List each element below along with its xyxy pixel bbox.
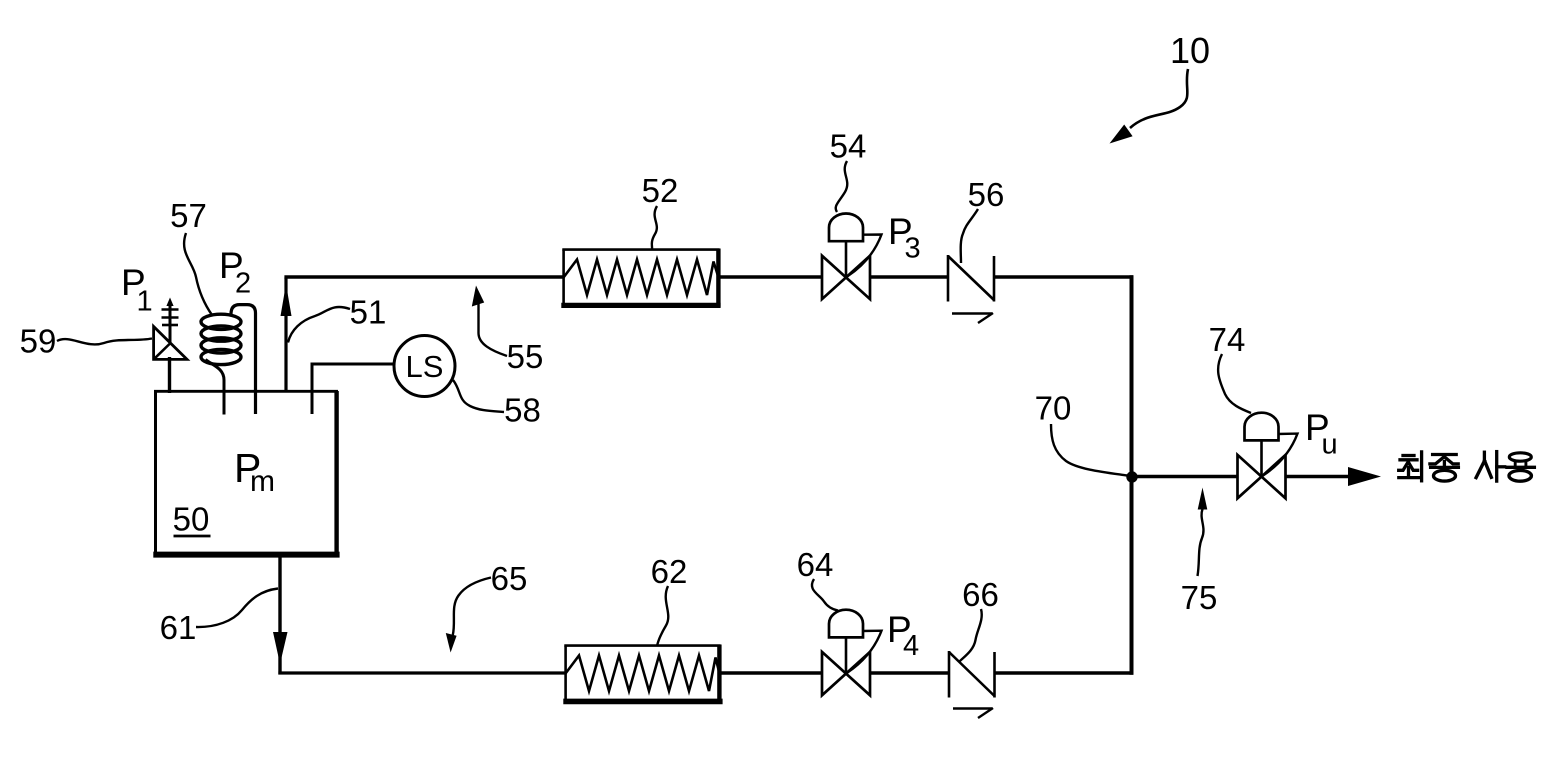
label 52: [642, 172, 679, 209]
svg-text:50: 50: [173, 501, 210, 538]
leader for 61: [196, 589, 278, 628]
label 58: [504, 392, 541, 429]
check valve 56: [948, 255, 994, 323]
wire coil 57 bottom inlet to tank: [206, 360, 225, 415]
level sensor LS pipe: [312, 364, 394, 414]
relief valve 59 spring: [169, 303, 172, 344]
check valve 66: [949, 651, 995, 718]
heater 52 box: [561, 249, 720, 307]
svg-text:m: m: [250, 465, 275, 498]
label 55: [507, 338, 544, 375]
arrow to end use: [1348, 467, 1381, 486]
svg-text:55: 55: [507, 338, 544, 375]
label 57: [170, 197, 207, 234]
label Pu: [1305, 407, 1338, 461]
leader for 66: [960, 609, 982, 662]
text final use (Korean, hand-drawn glyphs): [1399, 452, 1535, 482]
wire output pipe right of valve 74: [1285, 475, 1352, 478]
leader for 52: [652, 206, 657, 249]
wire top pipe segment 4: [993, 275, 1133, 279]
wire right vertical pipe: [1130, 275, 1134, 675]
wire bottom pipe segment 4: [994, 671, 1133, 675]
label 51: [350, 294, 387, 331]
heater 62 element zigzag: [566, 656, 720, 692]
svg-text:57: 57: [170, 197, 207, 234]
svg-text:u: u: [1322, 429, 1338, 461]
label 54: [830, 128, 867, 165]
label 70: [1035, 390, 1072, 427]
label 62: [651, 553, 688, 590]
svg-text:61: 61: [160, 609, 197, 646]
leader for 62: [657, 586, 668, 646]
control valve 54 P3: [822, 214, 882, 300]
wire valve 59 stub to tank: [168, 357, 171, 393]
svg-text:54: 54: [830, 128, 867, 165]
wire top pipe segment 3: [869, 275, 949, 279]
leader arrow for 55: [479, 303, 508, 356]
tank 50 vessel: [153, 391, 339, 555]
arrow up on pipe 51: [281, 284, 292, 316]
wire pipe 51 vertical from tank top: [284, 278, 287, 391]
svg-text:51: 51: [350, 294, 387, 331]
svg-text:62: 62: [651, 553, 688, 590]
svg-text:1: 1: [137, 286, 153, 318]
svg-text:10: 10: [1170, 30, 1210, 71]
svg-text:56: 56: [968, 176, 1005, 213]
leader for 51: [288, 307, 350, 343]
wire bottom pipe segment 2: [720, 671, 824, 675]
label 74: [1209, 321, 1246, 358]
control valve 74 Pu: [1238, 413, 1298, 499]
label P3: [888, 211, 921, 265]
label P2: [219, 245, 251, 300]
svg-text:66: 66: [962, 576, 999, 613]
label 56: [968, 176, 1005, 213]
label 65: [491, 560, 528, 597]
wire top pipe segment 2: [719, 275, 823, 279]
leader for 58: [453, 380, 504, 412]
svg-text:2: 2: [235, 268, 251, 300]
leader for 74: [1218, 354, 1251, 413]
wire top pipe segment 1: [284, 275, 563, 279]
label P1: [121, 262, 153, 318]
leader arrow for 10: [1130, 69, 1188, 128]
svg-text:4: 4: [903, 630, 919, 662]
svg-text:59: 59: [20, 323, 57, 360]
label 59: [20, 323, 57, 360]
leader for 64: [812, 579, 838, 611]
relief valve 59 body: [154, 327, 187, 360]
svg-text:75: 75: [1181, 579, 1218, 616]
leader for 56: [961, 209, 978, 263]
control valve 64 P4: [822, 610, 882, 696]
leader for 70: [1051, 424, 1127, 476]
label 75: [1181, 579, 1218, 616]
leader for 59: [57, 339, 152, 345]
svg-text:3: 3: [905, 233, 921, 265]
level sensor LS circle 58: [394, 336, 455, 397]
svg-text:70: 70: [1035, 390, 1072, 427]
glyph yong: [1509, 453, 1531, 461]
coil 57 heat exchanger: [201, 314, 241, 364]
wire coil 57 top outlet to tank: [231, 305, 256, 414]
heater 62 box: [563, 645, 722, 703]
wire bottom pipe segment 1: [278, 671, 566, 674]
label P4: [887, 609, 919, 662]
heater 52 element zigzag: [564, 260, 719, 296]
leader for 54: [836, 161, 848, 212]
wire tank outlet vertical pipe 61: [278, 556, 281, 675]
svg-text:LS: LS: [406, 349, 444, 384]
label 66: [962, 576, 999, 613]
svg-text:64: 64: [797, 546, 834, 583]
svg-text:74: 74: [1209, 321, 1246, 358]
leader arrow for 75: [1198, 509, 1204, 576]
label 64: [797, 546, 834, 583]
svg-text:65: 65: [491, 560, 528, 597]
glyph choe: [1403, 454, 1414, 457]
leader arrow for 65: [453, 578, 491, 636]
svg-text:52: 52: [642, 172, 679, 209]
leader for 57: [184, 233, 212, 315]
label 10: [1170, 30, 1210, 71]
svg-text:58: 58: [504, 392, 541, 429]
label 61: [160, 609, 197, 646]
wire output pipe left of valve 74: [1132, 475, 1239, 478]
label Pm inside tank: [234, 445, 275, 498]
arrow down on pipe 61: [273, 632, 288, 664]
wire bottom pipe segment 3: [868, 671, 950, 675]
label 50 underlined: [173, 501, 210, 538]
glyph sa: [1483, 452, 1486, 462]
node 70 junction dot: [1126, 471, 1137, 482]
glyph jong: [1433, 453, 1457, 456]
